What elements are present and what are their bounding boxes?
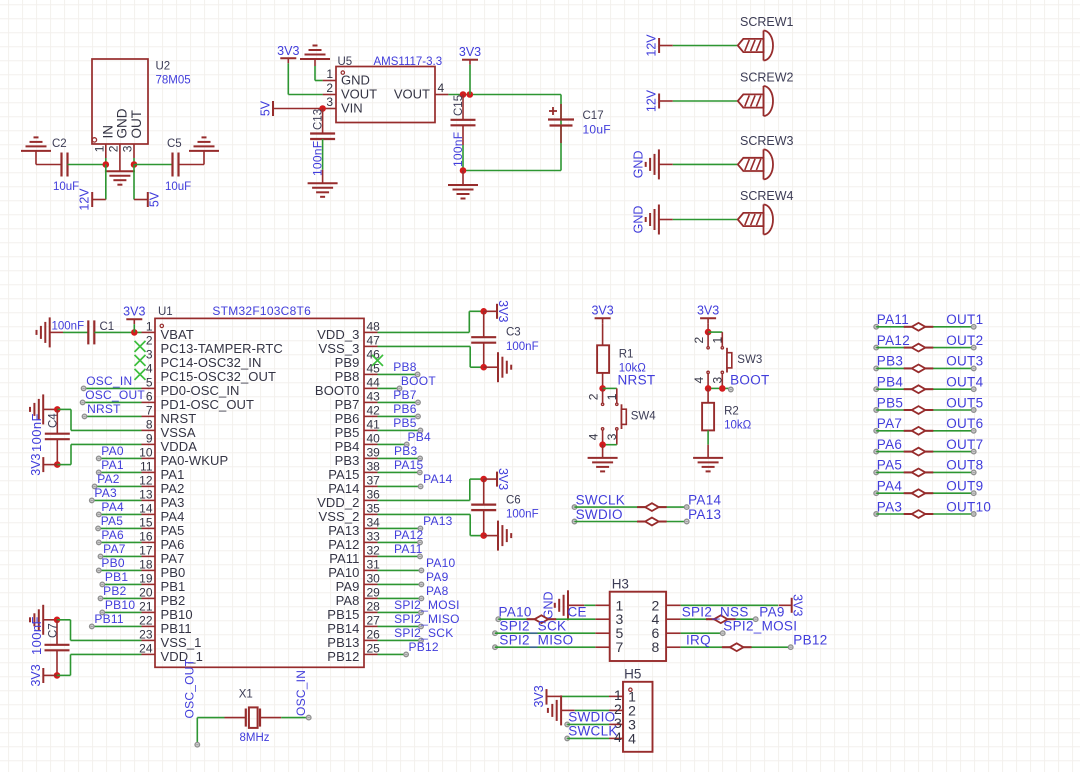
capacitor C1: [88, 320, 114, 344]
wire PA10 (pin 31): [378, 568, 424, 573]
ground (C15): [448, 171, 478, 199]
U1 pin 20 (PB2): [139, 585, 185, 608]
U1 pin 3 (PC14-OSC32_IN): [146, 347, 262, 370]
svg-text:5V: 5V: [147, 191, 161, 207]
svg-text:PA7: PA7: [103, 542, 126, 556]
wire PB1: [100, 582, 142, 587]
ground (U5 GND): [300, 46, 330, 81]
wire PA14 (pin 37): [378, 484, 423, 489]
H5 pin 3: [609, 715, 636, 733]
svg-text:23: 23: [139, 627, 153, 641]
wire SPI2_MISO (pin 27): [378, 624, 424, 629]
svg-text:PA2: PA2: [97, 472, 120, 486]
svg-text:VSS_3: VSS_3: [319, 341, 360, 356]
wire SPI2_MOSI (H3 pin6): [681, 631, 725, 636]
U1 pin 43 (PB7): [335, 389, 381, 412]
svg-text:SPI2_NSS: SPI2_NSS: [682, 605, 749, 620]
U1 pin 42 (PB6): [335, 403, 381, 426]
wire SPI2_SCK (H3 pin5): [493, 631, 596, 636]
junction C3 bottom: [480, 364, 487, 371]
svg-text:PB15: PB15: [327, 607, 359, 622]
svg-text:PA13: PA13: [423, 514, 453, 528]
U1 pin 9 (VDDA): [142, 431, 198, 454]
wire VDD_2-3V3: [378, 479, 484, 500]
svg-text:40: 40: [367, 431, 381, 445]
svg-text:PA10: PA10: [328, 565, 359, 580]
ground (C5): [189, 137, 219, 164]
svg-text:OUT2: OUT2: [946, 333, 983, 348]
net label PA1: [101, 458, 124, 472]
U1 pin 28 (PB15): [327, 599, 380, 622]
H5 pin 1: [609, 687, 636, 705]
svg-text:PA15: PA15: [394, 458, 424, 472]
svg-text:GND: GND: [631, 151, 645, 179]
svg-text:PB1: PB1: [105, 570, 129, 584]
svg-text:3: 3: [121, 145, 135, 152]
wire SW3 bottom (BOOT): [708, 387, 733, 392]
power flag 3V3 (H5): [532, 685, 560, 707]
net label PB7 (pin 43): [393, 388, 417, 402]
U1 pin 11 (PA1): [140, 459, 184, 482]
svg-text:9: 9: [146, 431, 153, 445]
U1 pin 12 (PA2): [139, 473, 184, 496]
svg-text:39: 39: [367, 445, 381, 459]
svg-text:3V3: 3V3: [459, 45, 481, 59]
svg-text:OSC_OUT: OSC_OUT: [183, 658, 197, 718]
U1 pin 33 (PA12): [328, 529, 380, 552]
junction 5V: [131, 161, 138, 168]
IC U2 78M05 body: [92, 59, 191, 144]
svg-text:PB8: PB8: [393, 360, 417, 374]
U1 pin 14 (PA4): [139, 501, 184, 524]
H3 pin 2: [652, 597, 681, 613]
junction C6 bottom: [480, 532, 487, 539]
net label SWDIO: [576, 507, 623, 522]
U1 pin 24 (VDD_1): [139, 641, 203, 664]
svg-text:PB10: PB10: [161, 607, 193, 622]
svg-text:PA3: PA3: [161, 495, 185, 510]
svg-text:SWDIO: SWDIO: [576, 507, 623, 522]
net label PB4 (pin 40): [408, 430, 432, 444]
net label PA9: [759, 605, 784, 620]
net label SPI2_NSS: [682, 605, 749, 620]
svg-text:U5: U5: [338, 56, 353, 68]
net label PA4: [101, 500, 124, 514]
net label CE: [568, 605, 587, 620]
net label OSC_IN: [294, 670, 308, 716]
net label BOOT (SW3): [730, 373, 769, 388]
svg-text:OSC_IN: OSC_IN: [86, 374, 132, 388]
wire H3pin2-3V3: [681, 604, 779, 606]
power flag 3V3 (C4): [29, 453, 58, 475]
no-connect pin 46: [372, 355, 383, 366]
net label PB5 (pin 41): [393, 416, 417, 430]
net label OSC_OUT: [183, 658, 197, 718]
wire PA7-OUT6: [874, 429, 976, 434]
net label SPI2_MOSI (H3): [723, 619, 797, 634]
svg-text:PB14: PB14: [327, 621, 359, 636]
svg-text:100nF: 100nF: [506, 341, 539, 353]
wire NRST: [82, 414, 141, 419]
svg-text:R2: R2: [724, 406, 739, 418]
svg-text:OUT5: OUT5: [946, 395, 983, 410]
svg-text:C4: C4: [48, 413, 60, 428]
net label PB10: [105, 598, 135, 612]
net label PA4: [877, 479, 903, 494]
wire C2-pin1 (12V net): [68, 164, 106, 166]
wire PA4-OUT9: [874, 491, 976, 496]
U1 pin 35 (VSS_2): [319, 501, 381, 524]
svg-text:BOOT0: BOOT0: [315, 383, 360, 398]
junction C3 top: [480, 308, 487, 315]
svg-text:C2: C2: [52, 138, 67, 150]
wire gnd-VSSA: [57, 409, 141, 430]
capacitor C2: [52, 138, 79, 193]
U2 pin 2 (GND): [107, 108, 130, 171]
net label SPI2_SCK (pin 26): [394, 626, 453, 640]
junction NRST: [599, 385, 606, 392]
net label OUT7: [946, 437, 983, 452]
svg-text:PB1: PB1: [161, 579, 186, 594]
wire 3V3-R1: [602, 323, 604, 345]
svg-text:25: 25: [367, 641, 381, 655]
svg-text:PA12: PA12: [877, 333, 910, 348]
net label PB0: [101, 556, 125, 570]
power flag 3V3 (C3): [484, 300, 510, 322]
svg-text:37: 37: [367, 473, 381, 487]
H3 pin 6: [652, 625, 681, 641]
svg-text:PB10: PB10: [105, 598, 135, 612]
U1 pin 40 (PB4): [335, 431, 381, 454]
wire PB0: [97, 568, 142, 573]
svg-text:SW3: SW3: [737, 354, 762, 366]
U1 pin 8 (VSSA): [142, 417, 196, 440]
wire to SCREW1: [673, 45, 738, 47]
svg-text:PA1: PA1: [161, 467, 185, 482]
svg-text:2: 2: [107, 145, 121, 152]
svg-text:43: 43: [367, 389, 381, 403]
svg-text:PB12: PB12: [327, 649, 359, 664]
U1 pin 7 (NRST): [142, 403, 197, 426]
svg-text:PA4: PA4: [877, 479, 903, 494]
svg-text:8MHz: 8MHz: [240, 732, 270, 744]
wire R2-gnd: [707, 430, 709, 444]
svg-text:PB8: PB8: [335, 369, 360, 384]
svg-text:3V3: 3V3: [532, 685, 546, 707]
svg-text:29: 29: [367, 585, 381, 599]
svg-text:VDD_2: VDD_2: [317, 495, 359, 510]
power flag 3V3 (SW3): [697, 304, 719, 324]
U1 pin 5 (PD0-OSC_IN): [142, 375, 240, 398]
svg-text:PB6: PB6: [393, 402, 417, 416]
svg-text:22: 22: [139, 613, 153, 627]
svg-text:H5: H5: [624, 667, 641, 682]
svg-text:PB12: PB12: [793, 633, 827, 648]
svg-text:VOUT: VOUT: [341, 87, 377, 102]
svg-text:100nF: 100nF: [52, 321, 85, 333]
svg-text:28: 28: [367, 599, 381, 613]
svg-text:8: 8: [652, 639, 660, 655]
net label OUT8: [946, 458, 983, 473]
svg-text:GND: GND: [114, 108, 129, 138]
wire PA1: [96, 470, 141, 475]
IC U1 STM32F103C8T6 body: [155, 304, 364, 667]
power flag 12V (SCREW2): [645, 89, 673, 112]
svg-text:PB7: PB7: [335, 397, 360, 412]
svg-text:PA6: PA6: [101, 528, 124, 542]
wire SWCLK (H5 pin4): [565, 736, 609, 741]
svg-text:PA0: PA0: [101, 444, 124, 458]
svg-text:PA6: PA6: [877, 437, 902, 452]
capacitor C17 (polarized): [548, 104, 611, 143]
net label PB8 (pin 45): [393, 360, 417, 374]
svg-text:30: 30: [367, 571, 381, 585]
svg-text:2: 2: [587, 393, 601, 400]
svg-text:12: 12: [139, 473, 153, 487]
net label PB2: [103, 584, 127, 598]
wire 3V3-SW3: [707, 323, 709, 332]
net port diamond PA11: [904, 323, 934, 331]
wire PB2: [98, 596, 141, 601]
svg-text:1: 1: [146, 319, 153, 333]
power flag 3V3 (C7): [29, 664, 57, 686]
svg-text:12V: 12V: [645, 34, 659, 57]
net label SPI2_MISO (H3): [499, 633, 573, 648]
wire PB4 (pin 40): [378, 442, 410, 447]
wire SPI2_MISO (H3 pin7): [493, 645, 596, 650]
svg-text:PB0: PB0: [101, 556, 125, 570]
wire PB5-OUT5: [874, 408, 976, 413]
net label IRQ: [686, 633, 711, 648]
net port diamond SWCLK: [637, 503, 667, 511]
svg-text:5: 5: [146, 375, 153, 389]
screw SCREW1: [738, 15, 794, 61]
svg-text:34: 34: [367, 515, 381, 529]
svg-text:10kΩ: 10kΩ: [724, 420, 752, 432]
svg-text:78M05: 78M05: [156, 75, 191, 87]
svg-text:IN: IN: [100, 125, 115, 139]
screw SCREW3: [738, 134, 794, 180]
wire gnd-C2: [36, 164, 62, 166]
net port diamond PA7: [904, 427, 934, 435]
svg-text:SPI2_MOSI: SPI2_MOSI: [723, 619, 797, 634]
power flag 3V3 (VBAT): [123, 305, 145, 333]
wire PB10: [100, 610, 142, 615]
svg-text:PA2: PA2: [161, 481, 185, 496]
H3 pin 7: [595, 639, 623, 655]
svg-text:16: 16: [139, 529, 153, 543]
svg-text:19: 19: [139, 571, 153, 585]
svg-text:PA9: PA9: [759, 605, 784, 620]
net label PA14 (pin 37): [423, 472, 453, 486]
svg-text:PA9: PA9: [426, 570, 449, 584]
net label OUT1: [946, 312, 983, 327]
wire pin3-C5 (5V net): [134, 164, 173, 166]
net port diamond SPI2_NSS: [706, 615, 736, 623]
net label PA9 (pin 30): [426, 570, 449, 584]
capacitor C3: [471, 311, 538, 367]
svg-text:41: 41: [367, 417, 381, 431]
svg-text:SWCLK: SWCLK: [576, 492, 626, 507]
net label PA11: [877, 312, 909, 327]
svg-text:SPI2_SCK: SPI2_SCK: [394, 626, 453, 640]
svg-text:PB11: PB11: [161, 621, 192, 636]
ground (C4): [30, 394, 57, 424]
U1 pin 15 (PA5): [139, 515, 184, 538]
svg-text:SW4: SW4: [631, 411, 657, 423]
net label BOOT (pin 44): [401, 374, 436, 388]
U1 pin 19 (PB1): [139, 571, 185, 594]
net label PA14: [688, 492, 721, 507]
svg-text:38: 38: [367, 459, 381, 473]
wire PA8 (pin 29): [378, 596, 424, 601]
junction BOOT right: [719, 385, 726, 392]
U2 pin 3 (OUT): [121, 110, 144, 165]
U1 pin 4 (PC15-OSC32_OUT): [146, 361, 276, 384]
svg-text:SPI2_MISO: SPI2_MISO: [499, 633, 573, 648]
svg-text:26: 26: [367, 627, 381, 641]
svg-text:SWDIO: SWDIO: [568, 710, 615, 725]
net label OSC_IN: [86, 374, 132, 388]
net label OSC_OUT: [85, 388, 145, 402]
svg-text:VIN: VIN: [341, 101, 363, 116]
capacitor C15: [451, 95, 476, 168]
wire 3V3-VDD_1: [57, 654, 142, 675]
svg-text:PA6: PA6: [161, 537, 185, 552]
net label SPI2_MISO (pin 27): [394, 612, 460, 626]
power flag 3V3 (C6): [484, 468, 510, 490]
switch SW4: [587, 388, 657, 444]
U1 pin 34 (PA13): [328, 515, 380, 538]
junction SW4-gnd: [599, 441, 606, 448]
svg-text:48: 48: [367, 319, 381, 333]
wire PA5-OUT8: [874, 470, 976, 475]
svg-text:OSC_OUT: OSC_OUT: [85, 388, 145, 402]
svg-text:36: 36: [367, 487, 381, 501]
svg-text:SCREW3: SCREW3: [740, 134, 794, 148]
wire PA12 (pin 33): [378, 540, 423, 545]
net port diamond SWDIO: [637, 518, 667, 526]
svg-text:X1: X1: [239, 689, 253, 701]
wire SWCLK: [572, 505, 689, 510]
wire VDD_3-3V3: [378, 311, 484, 332]
svg-text:PA8: PA8: [336, 593, 360, 608]
net label PB1: [105, 570, 129, 584]
U5 pin 2 (VOUT): [323, 81, 378, 102]
H3 pin 8: [652, 639, 681, 655]
net port diamond PB3: [904, 365, 934, 373]
net label OUT6: [946, 416, 983, 431]
svg-text:OUT7: OUT7: [946, 437, 983, 452]
svg-text:PA4: PA4: [101, 500, 124, 514]
wire PA6: [97, 540, 142, 545]
svg-text:C1: C1: [100, 321, 115, 333]
svg-text:17: 17: [139, 543, 153, 557]
svg-text:GND: GND: [341, 73, 370, 88]
svg-text:4: 4: [692, 376, 706, 383]
U1 pin 48 (VDD_3): [317, 319, 380, 342]
ground (SW4): [588, 445, 618, 472]
wire PA15 (pin 38): [378, 470, 423, 475]
wire SPI2_NSS-PA9 (H3 pin4): [681, 617, 758, 622]
ground (U2 pin 2): [105, 171, 135, 185]
net label PA0: [101, 444, 124, 458]
wire to SCREW4: [673, 219, 738, 221]
net label SWCLK: [576, 492, 626, 507]
svg-text:PD1-OSC_OUT: PD1-OSC_OUT: [161, 397, 255, 412]
junction C15 bottom: [460, 167, 467, 174]
svg-text:NRST: NRST: [161, 411, 197, 426]
svg-text:3V3: 3V3: [496, 468, 510, 490]
svg-text:3V3: 3V3: [591, 304, 613, 318]
U1 pin 26 (PB13): [327, 627, 380, 650]
H3 pin 1: [595, 597, 623, 613]
wire C13-gnd: [322, 139, 324, 170]
net label PA12: [877, 333, 910, 348]
wire SW4 bottom: [603, 444, 617, 446]
screw SCREW4: [738, 189, 794, 235]
no-connect pin 3: [135, 355, 146, 366]
net port diamond PA6: [904, 448, 934, 456]
svg-text:3V3: 3V3: [29, 664, 43, 686]
power flag 5V (U5 VIN): [259, 100, 274, 116]
svg-text:100nF: 100nF: [29, 616, 44, 655]
net label PB11: [94, 612, 124, 626]
svg-text:12V: 12V: [78, 188, 92, 211]
capacitor C5: [165, 138, 191, 193]
svg-text:OUT8: OUT8: [946, 458, 983, 473]
U2 pin 1 (IN): [93, 125, 116, 165]
ground (C7): [30, 605, 57, 635]
svg-text:PA4: PA4: [161, 509, 185, 524]
svg-text:PB4: PB4: [408, 430, 432, 444]
wire 3V3-VDDA: [57, 444, 141, 464]
svg-text:PA14: PA14: [423, 472, 453, 486]
ground flag GND (SCREW3): [631, 149, 673, 179]
net label PA10: [499, 605, 532, 620]
wire SWDIO (H5 pin3): [565, 722, 609, 727]
svg-text:C17: C17: [583, 110, 604, 122]
svg-text:VSS_2: VSS_2: [319, 509, 360, 524]
U1 pin 36 (VDD_2): [317, 487, 380, 510]
svg-text:SPI2_MOSI: SPI2_MOSI: [394, 598, 460, 612]
U1 pin 32 (PA11): [329, 543, 380, 566]
value 100nF (C1): [52, 321, 85, 333]
wire 5V-pin3: [273, 108, 323, 110]
U1 pin 38 (PA15): [328, 459, 380, 482]
connector H5 body: [623, 667, 653, 752]
svg-text:PA8: PA8: [426, 584, 449, 598]
svg-text:20: 20: [139, 585, 153, 599]
wire C5-gnd: [179, 164, 205, 166]
svg-text:100nF: 100nF: [506, 509, 539, 521]
wire PB8 (pin 45): [378, 372, 420, 377]
junction C7 bottom: [54, 672, 61, 679]
svg-text:OUT9: OUT9: [946, 479, 983, 494]
svg-text:7: 7: [146, 403, 153, 417]
svg-text:PA13: PA13: [328, 523, 359, 538]
svg-text:C13: C13: [312, 109, 324, 130]
wire PA3: [90, 498, 142, 503]
wire gnd-VSS_1: [57, 620, 142, 641]
wire PA7: [98, 554, 141, 559]
U1 pin 37 (PA14): [328, 473, 380, 496]
wire 5V down: [133, 165, 135, 200]
net label PA15 (pin 38): [394, 458, 424, 472]
net label PB12 (H3): [793, 633, 827, 648]
svg-text:OUT3: OUT3: [946, 354, 983, 369]
net port diamond PB4: [904, 385, 934, 393]
